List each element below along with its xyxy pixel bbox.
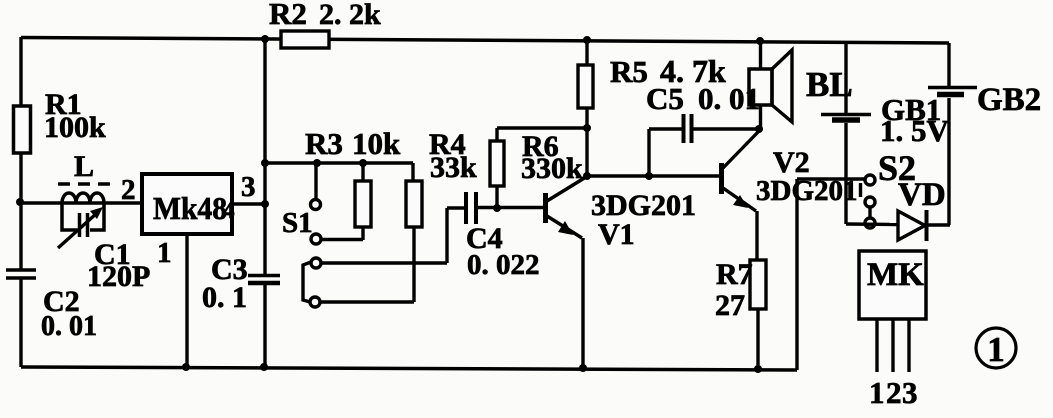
resistor R6 [490, 124, 591, 208]
wire: mid vertical branch [260, 35, 269, 371]
svg-text:1. 5V: 1. 5V [880, 113, 950, 148]
resistor R3 [355, 163, 371, 240]
wire: S1 pole 3 to C4 [321, 208, 464, 263]
svg-text:MK: MK [867, 257, 924, 293]
wire: top supply rail [21, 38, 949, 44]
svg-text:10k: 10k [352, 126, 401, 161]
wire: left vertical branch [19, 37, 22, 367]
svg-text:4: 4 [223, 198, 235, 223]
svg-text:0. 022: 0. 022 [467, 249, 540, 281]
wire: V1 collector to V2 base [587, 172, 719, 180]
svg-text:0. 1: 0. 1 [202, 281, 247, 314]
capacitor C2 [6, 270, 97, 342]
svg-text:120P: 120P [87, 260, 150, 293]
resistor R2 [269, 0, 381, 48]
capacitor C4 [466, 192, 543, 281]
microphone MK [859, 251, 926, 410]
svg-text:3: 3 [241, 171, 256, 203]
transistor V2 [722, 131, 858, 260]
speaker BL [749, 37, 853, 129]
wire: R3 branch horizontal [265, 126, 413, 167]
svg-text:R3: R3 [305, 126, 343, 161]
pin 3 wire [232, 171, 269, 208]
svg-text:1: 1 [987, 330, 1005, 369]
svg-text:R5: R5 [610, 54, 648, 89]
svg-text:S1: S1 [282, 207, 313, 239]
svg-text:VD: VD [898, 177, 946, 213]
svg-text:L: L [74, 150, 94, 183]
svg-text:GB2: GB2 [977, 82, 1041, 118]
svg-text:R2: R2 [269, 0, 307, 31]
svg-text:1: 1 [157, 237, 172, 269]
svg-text:Mk48: Mk48 [153, 190, 227, 226]
svg-text:33k: 33k [430, 151, 477, 184]
svg-text:2: 2 [886, 375, 902, 410]
svg-text:3: 3 [902, 375, 918, 410]
wire: S1 pole 4 to R4 [320, 300, 414, 303]
pin 2 label [121, 174, 136, 206]
pin 1 wire [157, 234, 190, 371]
resistor R4 [406, 128, 477, 302]
battery GB1 [821, 42, 950, 224]
transistor V1 [546, 177, 697, 372]
capacitor C5 [646, 81, 763, 176]
wire: bottom ground rail [21, 367, 797, 370]
svg-text:330k: 330k [521, 152, 583, 185]
inductor L [58, 150, 114, 203]
wire: emitter rail to switch S2 [797, 179, 865, 370]
svg-text:V1: V1 [598, 218, 635, 251]
node: junction of R1 branch and tank circuit [16, 198, 24, 206]
wire: tank circuit horizontal [21, 201, 143, 204]
svg-text:2. 2k: 2. 2k [319, 0, 381, 31]
capacitor C3 [202, 253, 280, 314]
svg-text:27: 27 [715, 289, 745, 322]
svg-text:100k: 100k [44, 111, 106, 144]
resistor R1 [14, 88, 107, 153]
resistor R7 [715, 258, 766, 373]
battery GB2 [928, 43, 1041, 225]
switch S1 [282, 163, 363, 307]
svg-text:1: 1 [869, 375, 885, 410]
switch S2 [861, 148, 917, 228]
svg-text:R7: R7 [716, 258, 753, 291]
diode VD [898, 177, 950, 241]
svg-text:0. 01: 0. 01 [41, 311, 97, 342]
svg-text:C5: C5 [646, 81, 684, 116]
capacitor C1 (variable, tank) [58, 203, 150, 293]
figure number 1 [976, 328, 1016, 369]
wire: battery negative return [846, 222, 897, 226]
op-amp U1 Mk484 IC [142, 174, 235, 234]
resistor R5 [578, 36, 726, 180]
svg-text:2: 2 [121, 174, 136, 206]
